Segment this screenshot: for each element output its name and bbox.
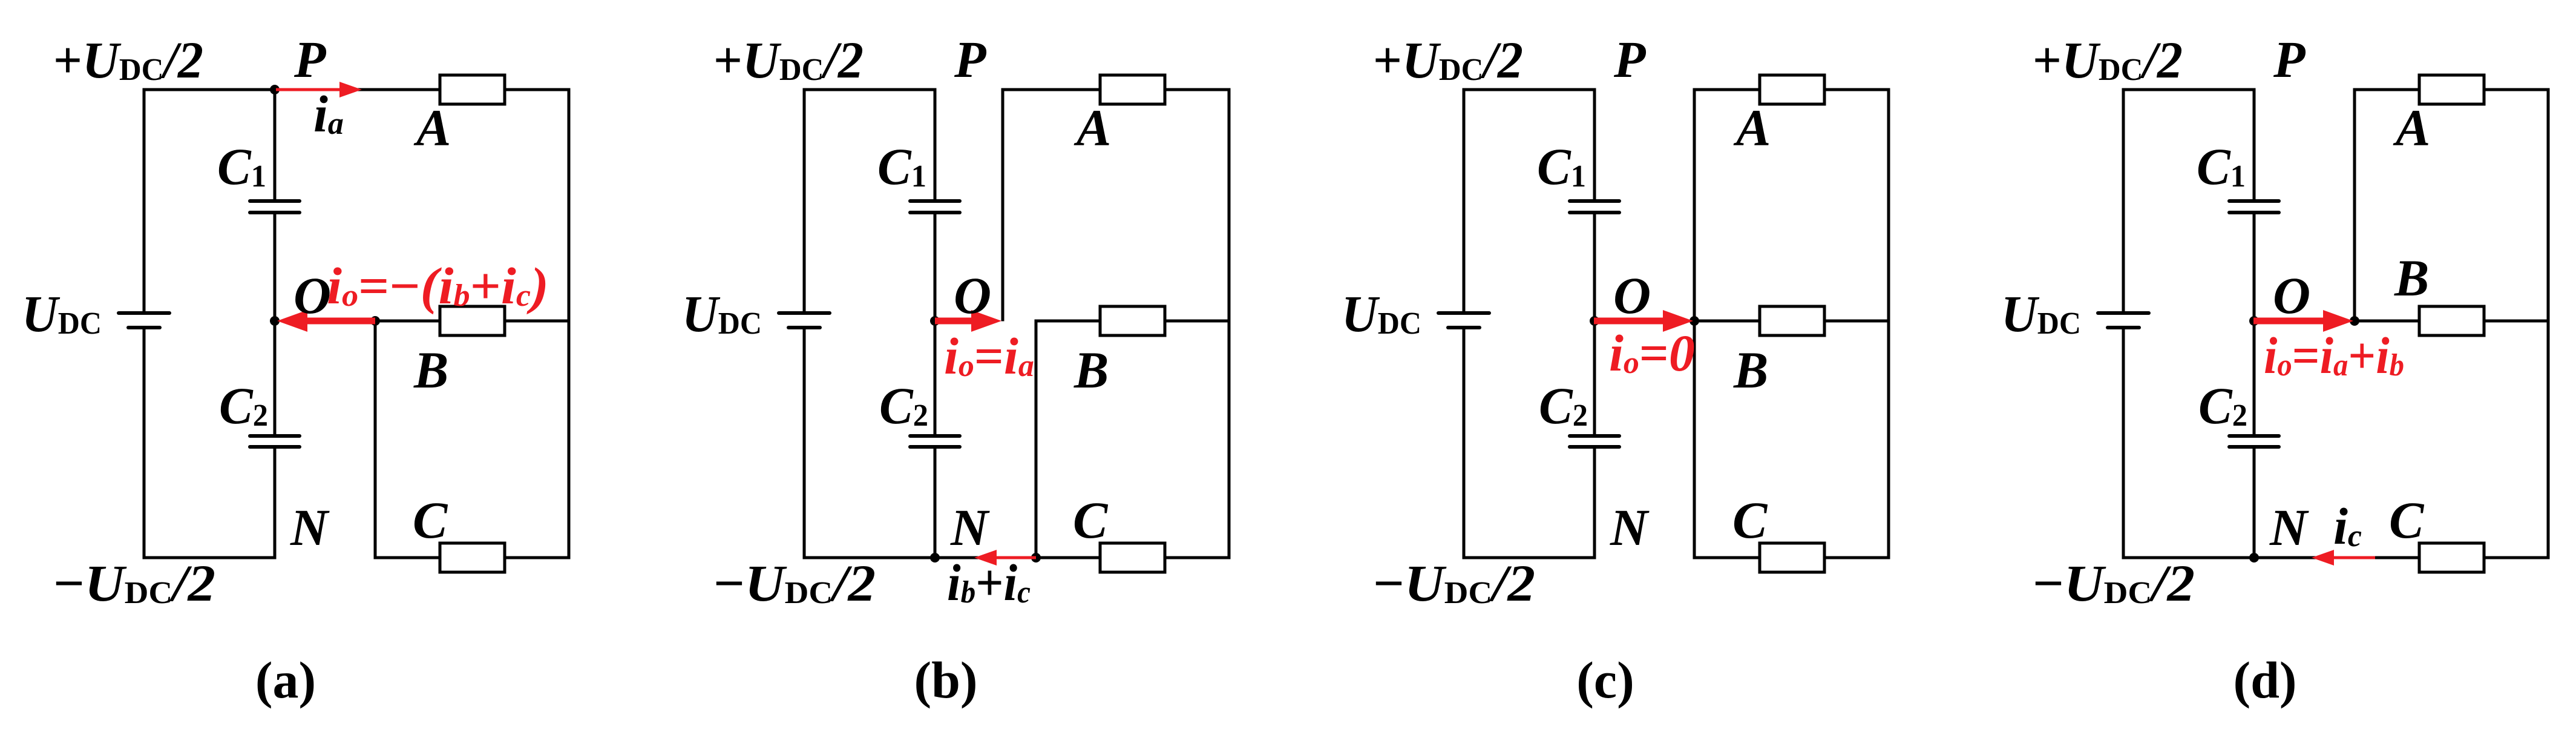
svg-text:io​=−(ib​+ic​): io​=−(ib​+ic​) [327,257,549,315]
wire: midpoint branch C2 to node N, panel (d) [2253,446,2256,559]
svg-text:B: B [1073,341,1109,399]
wire: left DC-source branch lower segment, panel (c) [1463,326,1466,559]
resistor load B, panel (a) [440,306,505,335]
wire: phase A row, panel (c) [1693,88,1890,91]
resistor load A, panel (b) [1100,75,1165,104]
svg-text:O: O [954,266,991,325]
current arrow ic into node N (d) [2333,556,2375,559]
svg-text:A: A [2393,99,2430,157]
wire: phase A row, panel (d) [2353,88,2550,91]
wire: left DC-source branch upper segment, panel (c) [1463,88,1466,315]
wire: midpoint branch P to C1, panel (a) [274,88,277,203]
wire: top rail from DC source to node P, panel (d) [2122,88,2256,91]
wire: left DC-source branch upper segment, panel (a) [143,88,146,315]
svg-text:N: N [2269,498,2309,556]
svg-text:(a): (a) [255,651,316,709]
wire: phase A left vertical to node O, panel (d) [2353,88,2356,323]
svg-text:O: O [293,266,331,325]
wire: midpoint branch C2 to node N, panel (b) [934,446,937,559]
wire: phase B row, panel (b) [1035,320,1231,323]
current arrow io at node O pointing right (c) [1594,318,1664,325]
wire: bottom rail to node N, panel (d) [2122,556,2550,559]
wire: bottom rail to node N, panel (a) [143,556,277,559]
resistor load C, panel (d) [2419,543,2484,572]
wire: phase B row, panel (d) [2353,320,2550,323]
wire: midpoint branch C1 to O to C2, panel (b) [934,211,937,438]
svg-text:C: C [413,491,448,549]
wire: top rail from DC source to node P, panel (c) [1463,88,1596,91]
svg-text:A: A [1733,99,1771,157]
capacitor C2, panel (b) [910,434,960,438]
svg-text:A: A [413,99,451,157]
capacitor C1, panel (b) [910,199,960,203]
battery UDC, panel (d) [2098,311,2149,315]
wire: load neutral right vertical, panel (c) [1887,88,1890,559]
capacitor C1, panel (c) [1570,199,1619,203]
wire: top rail from DC source to node P, panel (b) [803,88,937,91]
current arrow io at node O pointing right (b) [935,318,972,325]
wire: left DC-source branch lower segment, panel (d) [2122,326,2125,559]
wire: bottom rail to node N, panel (b) [803,556,1231,559]
svg-text:P: P [1613,30,1647,88]
node N junction dot (d) [2249,553,2259,562]
svg-text:C: C [2389,491,2425,549]
junction dot B/C tie point (b) [1031,553,1041,562]
svg-text:B: B [1733,341,1768,399]
svg-text:O: O [1613,266,1651,325]
wire: midpoint branch P to C1, panel (d) [2253,88,2256,203]
wire: left DC-source branch upper segment, panel (d) [2122,88,2125,315]
svg-text:C: C [1073,491,1109,549]
wire: phase A row, panel (b) [1001,88,1231,91]
junction dot A/B tie point (d) [2350,316,2359,326]
svg-text:C: C [1732,491,1768,549]
svg-text:P: P [293,30,327,88]
current arrow io at node O pointing left (a) [306,318,375,325]
resistor load A, panel (d) [2419,75,2484,104]
node O junction dot (c) [1590,316,1599,326]
battery UDC, panel (b) [779,311,830,315]
resistor load C, panel (a) [440,543,505,572]
wire: midpoint branch C2 to node N, panel (c) [1593,446,1596,559]
wire: phase B row, panel (a) [374,320,571,323]
svg-text:(b): (b) [914,651,977,709]
capacitor C2, panel (c) [1570,434,1619,438]
resistor load B, panel (b) [1100,306,1165,335]
capacitor C1, panel (a) [250,199,300,203]
svg-text:B: B [413,341,448,399]
resistor load B, panel (c) [1760,306,1824,335]
wire: B/C load left vertical, panel (a) [374,320,377,559]
svg-text:io​=0: io​=0 [1609,324,1695,382]
wire: phase C row, panel (c) [1693,556,1890,559]
current arrow io at node O pointing right (d) [2253,318,2324,325]
svg-text:N: N [950,498,990,556]
junction dot B/C tie point (a) [370,316,380,326]
svg-text:P: P [2273,30,2306,88]
wire: left DC-source branch lower segment, panel (b) [803,326,806,559]
wire: midpoint branch C1 to O to C2, panel (a) [274,211,277,438]
svg-text:P: P [954,30,987,88]
node O junction dot (b) [930,316,940,326]
resistor load C, panel (c) [1760,543,1824,572]
svg-text:O: O [2273,266,2310,325]
current arrow ia at node P (a) [276,88,341,91]
battery UDC, panel (a) [119,311,169,315]
current arrow ib+ic into node N (b) [995,556,1036,559]
wire: midpoint branch C2 to node N, panel (a) [274,446,277,559]
wire: midpoint branch P to C1, panel (c) [1593,88,1596,203]
svg-text:B: B [2394,249,2429,307]
node P junction dot (a) [270,85,280,94]
wire: midpoint branch P to C1, panel (b) [934,88,937,203]
wire: phase B left vertical to bottom rail, panel (b) [1035,320,1038,559]
wire: load neutral right vertical, panel (d) [2547,88,2550,559]
capacitor C2, panel (d) [2229,434,2279,438]
capacitor C1, panel (d) [2229,199,2279,203]
node N junction dot (b) [930,553,940,562]
wire: midpoint branch C1 to O to C2, panel (c) [1593,211,1596,438]
wire: load neutral right vertical, panel (a) [568,88,571,559]
svg-text:N: N [1610,498,1650,556]
resistor load A, panel (c) [1760,75,1824,104]
node O junction dot (a) [270,316,280,326]
svg-text:N: N [290,498,330,556]
wire: load left vertical A-B-C, panel (c) [1693,88,1696,559]
wire: load neutral right vertical, panel (b) [1228,88,1231,559]
capacitor C2, panel (a) [250,434,300,438]
resistor load B, panel (d) [2419,306,2484,335]
svg-text:(c): (c) [1576,651,1634,709]
wire: left DC-source branch lower segment, panel (a) [143,326,146,559]
wire: phase B row, panel (c) [1693,320,1890,323]
node O junction dot (d) [2249,316,2259,326]
wire: phase A left vertical to node O arrow, panel (b) [1001,88,1005,322]
wire: midpoint branch C1 to O to C2, panel (d) [2253,211,2256,438]
junction dot load left vertical (c) [1689,316,1699,326]
wire: left DC-source branch upper segment, panel (b) [803,88,806,315]
wire: phase C row, panel (a) [374,556,571,559]
svg-text:A: A [1073,99,1111,157]
wire: bottom rail to node N, panel (c) [1463,556,1596,559]
svg-text:(d): (d) [2233,651,2296,709]
resistor load A, panel (a) [440,75,505,104]
wire: top rail from DC source to node P, panel (a) [143,88,571,91]
battery UDC, panel (c) [1438,311,1489,315]
resistor load C, panel (b) [1100,543,1165,572]
